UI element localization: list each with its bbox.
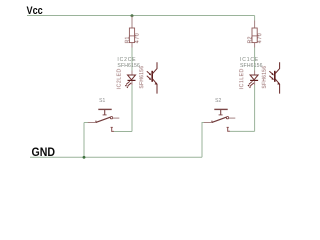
svg-text:GND: GND (32, 145, 56, 159)
svg-text:Vcc: Vcc (27, 5, 43, 17)
svg-text:IC2CE: IC2CE (117, 57, 136, 63)
svg-text:IC1LED: IC1LED (239, 68, 245, 89)
svg-text:S2: S2 (215, 98, 221, 104)
svg-text:R1: R1 (125, 36, 131, 43)
svg-text:470: 470 (135, 32, 141, 43)
svg-text:SFH6156: SFH6156 (262, 66, 268, 89)
svg-text:S1: S1 (99, 98, 105, 104)
svg-text:R2: R2 (247, 36, 253, 43)
svg-text:IC1CE: IC1CE (240, 57, 259, 63)
svg-text:470: 470 (257, 32, 263, 43)
svg-text:SFH6156: SFH6156 (139, 66, 145, 89)
svg-text:IC2LED: IC2LED (117, 68, 123, 89)
